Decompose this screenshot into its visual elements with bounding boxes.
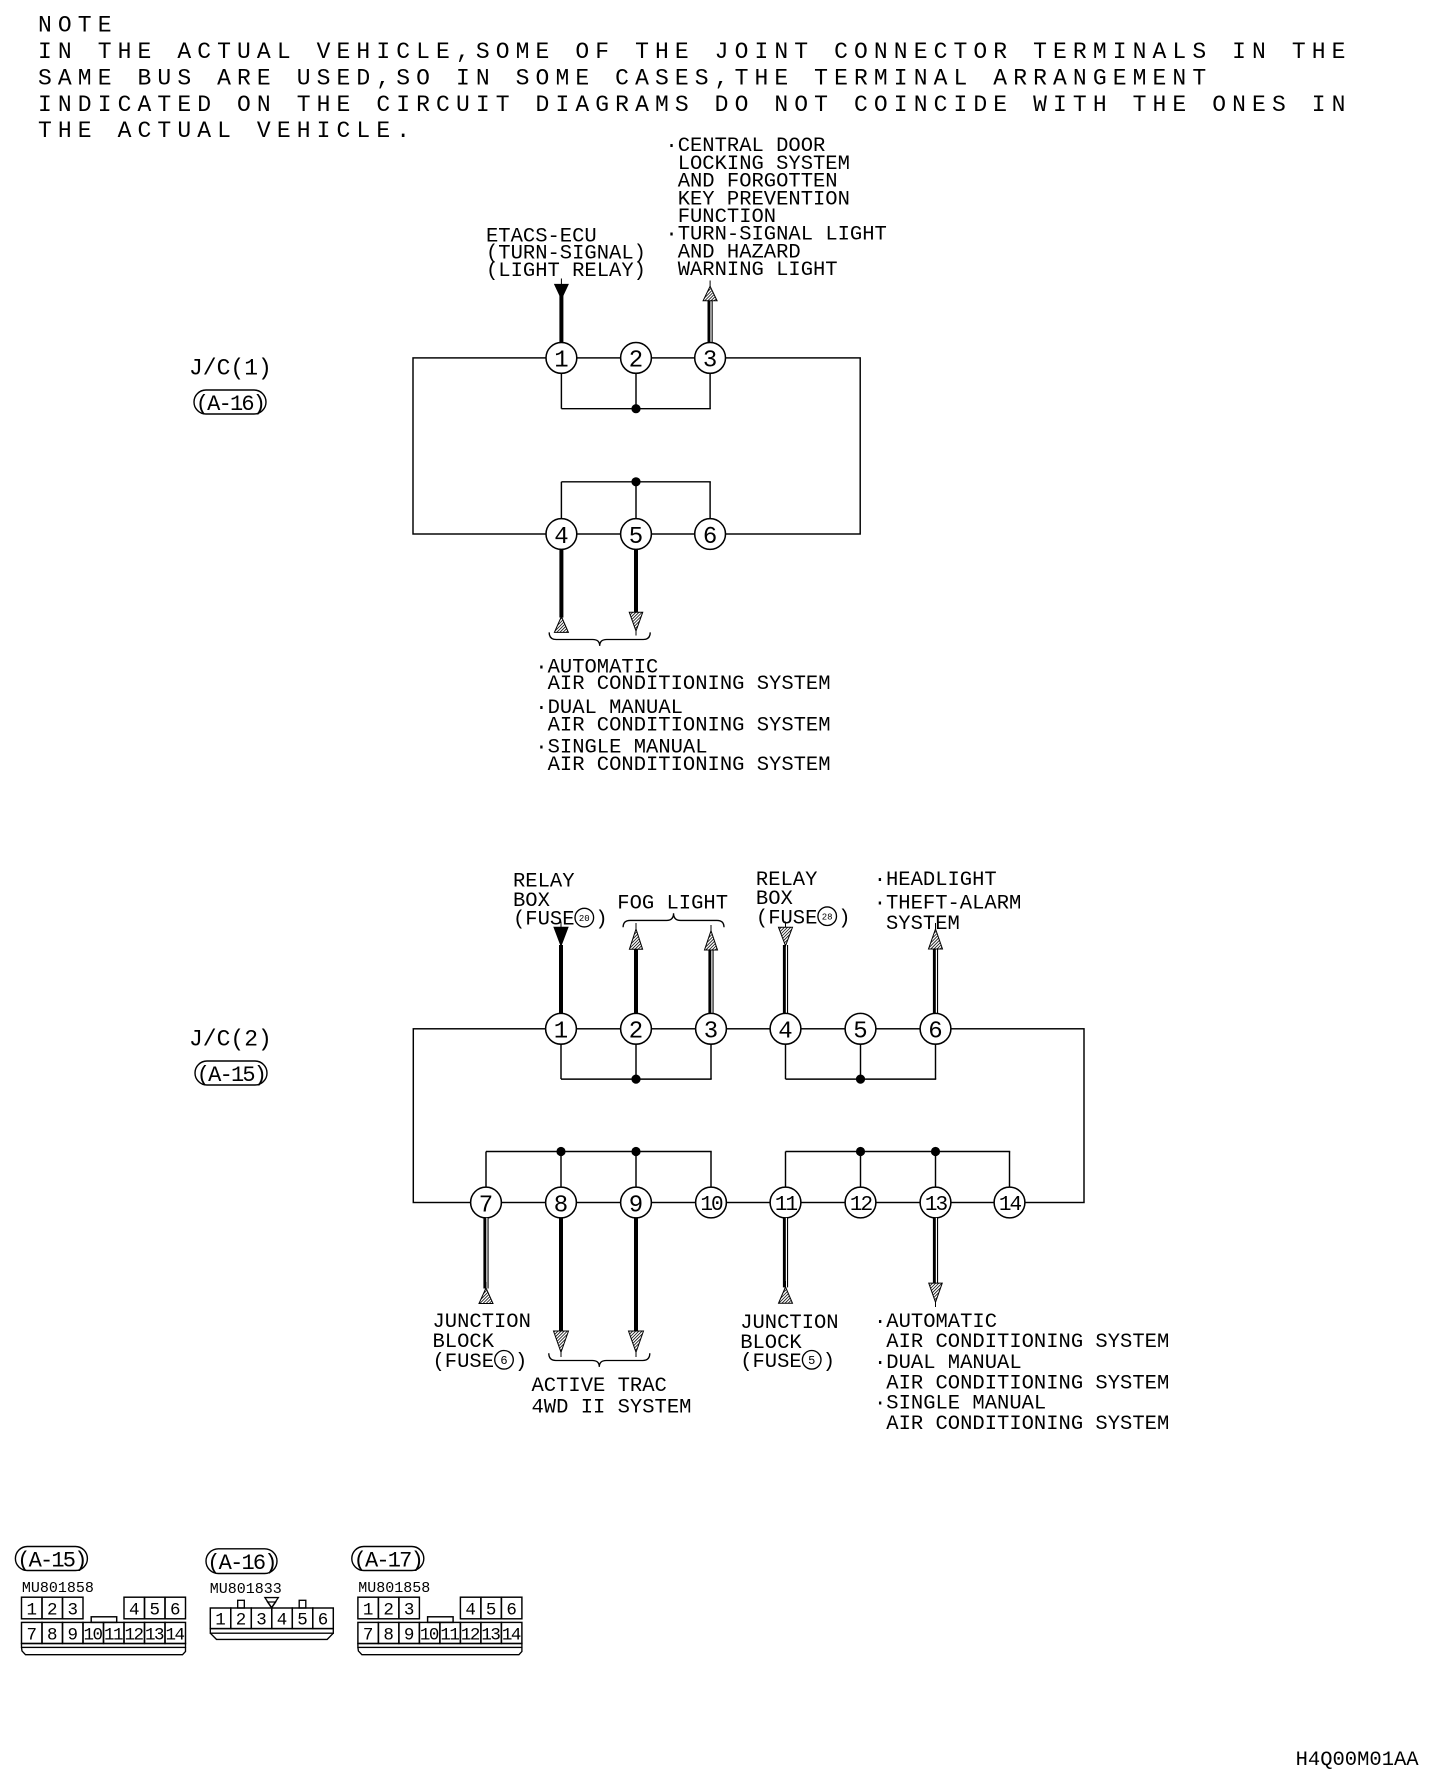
svg-text:2: 2 bbox=[629, 348, 643, 375]
svg-text:11: 11 bbox=[440, 1625, 459, 1645]
connector A-17 bottom lip bbox=[358, 1647, 522, 1654]
wire from terminal 3 to turn-signal/hazard bbox=[707, 301, 712, 343]
terminal 14 J/C(2) bbox=[994, 1187, 1025, 1218]
terminal 6 J/C(2) bbox=[920, 1013, 951, 1044]
svg-text:3: 3 bbox=[256, 1611, 267, 1631]
arrowhead at terminal 8 bbox=[554, 1331, 569, 1352]
svg-text:FOG LIGHT: FOG LIGHT bbox=[617, 893, 728, 916]
svg-text:11: 11 bbox=[775, 1194, 798, 1217]
wire from terminal 5 to A/C system bbox=[634, 549, 638, 612]
svg-text:(A-17): (A-17) bbox=[354, 1549, 422, 1574]
svg-text:4WD II SYSTEM: 4WD II SYSTEM bbox=[532, 1396, 692, 1419]
svg-text:4: 4 bbox=[277, 1611, 288, 1631]
terminal 3 J/C(2) bbox=[696, 1013, 727, 1044]
svg-text:MU801858: MU801858 bbox=[358, 1580, 430, 1597]
junction dot bbox=[931, 1147, 940, 1156]
svg-text:9: 9 bbox=[629, 1192, 643, 1219]
svg-text:12: 12 bbox=[850, 1194, 873, 1217]
arrowhead incoming at terminal 4 bbox=[554, 617, 568, 633]
svg-text:6: 6 bbox=[170, 1600, 181, 1620]
svg-text:AIR CONDITIONING SYSTEM: AIR CONDITIONING SYSTEM bbox=[886, 1331, 1169, 1354]
wire terminal 8 to active trac bbox=[559, 1218, 563, 1332]
arrowhead at terminal 11 bbox=[779, 1287, 793, 1303]
svg-text:20: 20 bbox=[579, 914, 590, 924]
svg-text:MU801833: MU801833 bbox=[210, 1581, 282, 1598]
connector A-16 body pins 1-6 bbox=[210, 1608, 231, 1629]
svg-text:5: 5 bbox=[486, 1600, 497, 1620]
svg-text:·HEADLIGHT: ·HEADLIGHT bbox=[874, 869, 997, 892]
svg-text:8: 8 bbox=[47, 1625, 58, 1645]
connector A-17 body pins 1-3 bbox=[358, 1597, 379, 1619]
svg-text:3: 3 bbox=[404, 1600, 415, 1620]
svg-text:AIR CONDITIONING SYSTEM: AIR CONDITIONING SYSTEM bbox=[548, 754, 831, 777]
arrowhead incoming at terminal 4 bbox=[779, 927, 793, 946]
wire relay box fuse28 to terminal 4 bbox=[785, 922, 787, 929]
connector A-17 keying tab bbox=[428, 1617, 454, 1623]
J/C(1) inner bus upper bbox=[560, 373, 562, 408]
brace under terminals 4-5 bbox=[549, 632, 650, 646]
wire relay box fuse20 to terminal 1 bbox=[560, 922, 562, 929]
terminal 3 J/C(1) bbox=[695, 343, 726, 374]
connector A-17 body pins 4-6 bbox=[460, 1597, 481, 1619]
svg-text:13: 13 bbox=[925, 1194, 948, 1217]
svg-text:5: 5 bbox=[149, 1600, 160, 1620]
arrowhead outgoing at terminal 6 bbox=[929, 929, 943, 949]
svg-text:5: 5 bbox=[297, 1611, 308, 1631]
svg-text:9: 9 bbox=[67, 1625, 78, 1645]
svg-text:3: 3 bbox=[704, 1019, 718, 1046]
svg-text:7: 7 bbox=[479, 1192, 493, 1219]
junction dot bbox=[631, 1147, 640, 1156]
svg-text:14: 14 bbox=[502, 1625, 521, 1645]
svg-text:(A-16): (A-16) bbox=[207, 1551, 275, 1576]
svg-text:3: 3 bbox=[703, 348, 717, 375]
svg-text:AIR CONDITIONING SYSTEM: AIR CONDITIONING SYSTEM bbox=[548, 715, 831, 738]
connector A-16 index triangle bbox=[265, 1598, 278, 1608]
wire terminal 6 to headlight/theft-alarm bbox=[933, 949, 938, 1014]
wire terminal 9 to active trac bbox=[634, 1218, 638, 1332]
svg-text:H4Q00M01AA: H4Q00M01AA bbox=[1296, 1749, 1420, 1772]
J/C(2) inner bus lower-right (11-14) bbox=[785, 1152, 787, 1188]
connector A-15 bottom strip bbox=[22, 1644, 186, 1648]
arrowhead outgoing at terminal 2 bbox=[629, 929, 642, 949]
connector A-17 body pins 7-14 bbox=[358, 1622, 379, 1643]
terminal 6 J/C(1) bbox=[695, 519, 726, 550]
svg-text:J/C(1): J/C(1) bbox=[189, 355, 272, 381]
svg-text:ACTIVE TRAC: ACTIVE TRAC bbox=[532, 1375, 667, 1398]
J/C(1) bus box outline bbox=[413, 358, 860, 534]
terminal 1 J/C(1) bbox=[546, 343, 577, 374]
wire terminal 3 to fog light bbox=[708, 950, 713, 1014]
svg-text:2: 2 bbox=[629, 1019, 643, 1046]
wire terminal 7 to junction block fuse6 bbox=[483, 1218, 488, 1289]
svg-text:(FUSE: (FUSE bbox=[433, 1351, 495, 1374]
connector ref A-16 bbox=[194, 390, 266, 414]
svg-text:13: 13 bbox=[481, 1625, 500, 1645]
connector A-16 tab on pin 2 bbox=[238, 1600, 245, 1608]
svg-text:1: 1 bbox=[363, 1600, 374, 1620]
svg-text:6: 6 bbox=[500, 1354, 507, 1368]
svg-text:7: 7 bbox=[363, 1625, 374, 1645]
junction dot bbox=[856, 1147, 865, 1156]
svg-text:SAME BUS ARE USED,SO IN SOME C: SAME BUS ARE USED,SO IN SOME CASES,THE T… bbox=[38, 65, 1212, 91]
arrowhead incoming at terminal 1 bbox=[555, 284, 569, 298]
svg-text:IN THE ACTUAL VEHICLE,SOME OF: IN THE ACTUAL VEHICLE,SOME OF THE JOINT … bbox=[38, 39, 1352, 65]
connector ref A-16 (pinout) bbox=[206, 1549, 277, 1574]
connector A-15 body pins 4-6 bbox=[124, 1597, 145, 1619]
connector ref A-15 bbox=[195, 1061, 267, 1085]
svg-text:10: 10 bbox=[83, 1625, 102, 1645]
connector A-15 keying tab bbox=[91, 1617, 117, 1623]
svg-text:2: 2 bbox=[236, 1611, 247, 1631]
svg-text:13: 13 bbox=[145, 1625, 164, 1645]
terminal 7 J/C(2) bbox=[471, 1187, 502, 1218]
svg-text:2: 2 bbox=[383, 1600, 394, 1620]
svg-text:28: 28 bbox=[822, 912, 833, 922]
svg-text:): ) bbox=[515, 1351, 527, 1374]
svg-text:(FUSE: (FUSE bbox=[740, 1351, 802, 1374]
J/C(2) inner bus upper-left (1-3) bbox=[560, 1044, 562, 1079]
junction dot bbox=[631, 1075, 640, 1084]
J/C(1) inner bus lower bbox=[560, 482, 562, 519]
wire terminal 11 to junction block fuse5 bbox=[783, 1218, 788, 1288]
terminal 9 J/C(2) bbox=[621, 1187, 652, 1218]
terminal 1 J/C(2) bbox=[546, 1013, 577, 1044]
svg-text:J/C(2): J/C(2) bbox=[189, 1027, 272, 1053]
J/C(2) inner bus lower-left (7-10) bbox=[485, 1152, 487, 1188]
svg-text:7: 7 bbox=[26, 1625, 37, 1645]
svg-text:6: 6 bbox=[703, 524, 717, 551]
junction dot upper bus bbox=[631, 404, 640, 413]
svg-text:(A-16): (A-16) bbox=[196, 392, 264, 417]
terminal 4 J/C(1) bbox=[546, 519, 577, 550]
svg-text:(A-15): (A-15) bbox=[197, 1063, 265, 1088]
svg-text:11: 11 bbox=[104, 1625, 123, 1645]
svg-text:AIR CONDITIONING SYSTEM: AIR CONDITIONING SYSTEM bbox=[548, 673, 831, 696]
svg-text:INDICATED ON THE CIRCUIT DIAGR: INDICATED ON THE CIRCUIT DIAGRAMS DO NOT… bbox=[38, 92, 1352, 118]
terminal 10 J/C(2) bbox=[696, 1187, 727, 1218]
svg-text:14: 14 bbox=[165, 1625, 184, 1645]
svg-text:SYSTEM: SYSTEM bbox=[886, 913, 960, 936]
svg-text:14: 14 bbox=[999, 1194, 1022, 1217]
svg-text:WARNING LIGHT: WARNING LIGHT bbox=[678, 259, 838, 282]
svg-text:5: 5 bbox=[629, 524, 643, 551]
svg-text:4: 4 bbox=[465, 1600, 476, 1620]
arrowhead at terminal 7 bbox=[479, 1288, 493, 1304]
svg-text:(FUSE: (FUSE bbox=[513, 909, 575, 932]
svg-text:(A-15): (A-15) bbox=[17, 1549, 85, 1574]
svg-text:1: 1 bbox=[26, 1600, 37, 1620]
svg-text:): ) bbox=[838, 907, 850, 930]
junction dot bbox=[856, 1075, 865, 1084]
terminal 5 J/C(2) bbox=[845, 1013, 876, 1044]
terminal 12 J/C(2) bbox=[845, 1187, 876, 1218]
svg-text:3: 3 bbox=[67, 1600, 78, 1620]
svg-text:2: 2 bbox=[47, 1600, 58, 1620]
brace over fog light wires bbox=[623, 913, 724, 927]
svg-text:9: 9 bbox=[404, 1625, 415, 1645]
wire terminal 2 to fog light bbox=[634, 949, 638, 1014]
svg-text:NOTE: NOTE bbox=[38, 13, 118, 39]
connector A-15 body pins 1-3 bbox=[22, 1597, 43, 1619]
connector A-16 tab on pin 5 bbox=[299, 1600, 306, 1608]
svg-text:4: 4 bbox=[129, 1600, 140, 1620]
arrowhead outgoing at terminal 3 bbox=[705, 931, 718, 950]
terminal 4 J/C(2) bbox=[770, 1013, 801, 1044]
svg-text:6: 6 bbox=[506, 1600, 517, 1620]
arrowhead at terminal 9 bbox=[629, 1331, 644, 1352]
wire terminal 13 to A/C system bbox=[933, 1218, 938, 1284]
wire from terminal 4 to A/C system bbox=[559, 549, 563, 617]
svg-text:MU801858: MU801858 bbox=[22, 1580, 94, 1597]
terminal 5 J/C(1) bbox=[621, 519, 652, 550]
wire from ETACS-ECU to terminal 1 bbox=[560, 279, 562, 286]
svg-text:5: 5 bbox=[853, 1019, 867, 1046]
connector ref A-17 bbox=[352, 1547, 424, 1571]
svg-text:8: 8 bbox=[554, 1192, 568, 1219]
svg-text:AIR CONDITIONING SYSTEM: AIR CONDITIONING SYSTEM bbox=[886, 1413, 1169, 1436]
svg-text:4: 4 bbox=[554, 524, 568, 551]
svg-text:10: 10 bbox=[700, 1194, 723, 1217]
arrowhead incoming at terminal 1 bbox=[554, 927, 568, 946]
svg-text:(LIGHT RELAY): (LIGHT RELAY) bbox=[486, 260, 646, 283]
terminal 8 J/C(2) bbox=[546, 1187, 577, 1218]
connector A-16 bottom lip bbox=[210, 1633, 333, 1639]
svg-text:1: 1 bbox=[554, 1019, 568, 1046]
J/C(2) inner bus upper-right (4-6) bbox=[785, 1044, 787, 1079]
svg-text:12: 12 bbox=[124, 1625, 143, 1645]
svg-text:(FUSE: (FUSE bbox=[756, 907, 818, 930]
junction dot lower bus bbox=[631, 477, 640, 486]
brace under terminals 8-9 bbox=[549, 1353, 650, 1367]
terminal 11 J/C(2) bbox=[770, 1187, 801, 1218]
terminal 13 J/C(2) bbox=[920, 1187, 951, 1218]
svg-text:THE ACTUAL VEHICLE.: THE ACTUAL VEHICLE. bbox=[38, 118, 416, 144]
svg-text:6: 6 bbox=[928, 1019, 942, 1046]
arrowhead outgoing at terminal 3 bbox=[703, 286, 717, 301]
svg-text:10: 10 bbox=[420, 1625, 439, 1645]
svg-text:1: 1 bbox=[554, 348, 568, 375]
connector A-16 bottom strip bbox=[210, 1629, 333, 1634]
connector ref A-15 bbox=[15, 1547, 87, 1571]
svg-text:8: 8 bbox=[383, 1625, 394, 1645]
connector A-17 bottom strip bbox=[358, 1644, 522, 1648]
svg-text:): ) bbox=[595, 909, 607, 932]
svg-text:4: 4 bbox=[778, 1019, 792, 1046]
svg-text:12: 12 bbox=[461, 1625, 480, 1645]
terminal 2 J/C(1) bbox=[621, 343, 652, 374]
junction dot bbox=[556, 1147, 565, 1156]
svg-text:): ) bbox=[823, 1351, 835, 1374]
J/C(2) bus box outline bbox=[413, 1029, 1084, 1203]
connector A-15 bottom lip bbox=[22, 1647, 186, 1654]
terminal 2 J/C(2) bbox=[621, 1013, 652, 1044]
arrowhead at terminal 13 bbox=[929, 1283, 943, 1302]
svg-text:6: 6 bbox=[318, 1611, 329, 1631]
svg-text:5: 5 bbox=[808, 1354, 815, 1368]
svg-text:1: 1 bbox=[215, 1611, 226, 1631]
connector A-15 body pins 7-14 bbox=[22, 1622, 43, 1643]
arrowhead outgoing at terminal 5 bbox=[629, 612, 643, 631]
